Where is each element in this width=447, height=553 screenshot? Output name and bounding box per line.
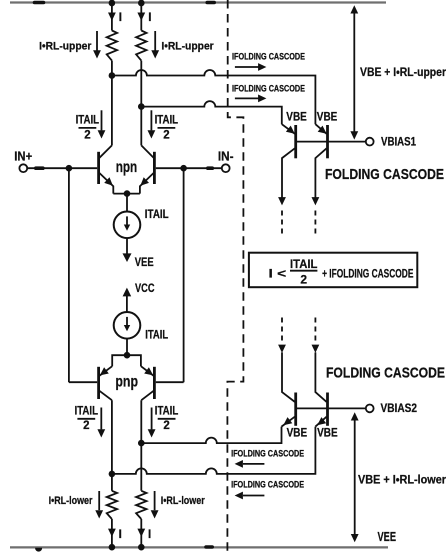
transistor Q2 emitter diagonal with arrow	[315, 124, 326, 134]
node: wire D junction	[109, 471, 116, 478]
dashed stub Q2 collector	[314, 211, 316, 234]
svg-text:ITAIL: ITAIL	[145, 209, 169, 221]
transistor Q1 collector	[282, 148, 295, 197]
current arrow I (upper right)	[137, 13, 145, 21]
transistor Q4 lower cascode base bar	[326, 393, 329, 426]
transistor Q3 collector	[282, 352, 295, 402]
transistor Q4 emitter diagonal with arrow	[315, 417, 326, 427]
svg-text:2: 2	[83, 420, 89, 432]
op... transistor Q1 upper cascode base bar	[294, 125, 297, 158]
resistor RL-upper (right)	[136, 31, 146, 61]
arrow to VEE (mid)	[123, 253, 132, 262]
resistor RL-upper (left)	[107, 31, 117, 61]
svg-text:VBE + I•RL-lower: VBE + I•RL-lower	[358, 472, 446, 486]
transistor Q1 emitter diagonal with arrow	[282, 124, 295, 134]
wire: left lower branch	[111, 400, 113, 491]
svg-text:IFOLDING CASCODE: IFOLDING CASCODE	[232, 52, 305, 62]
wire: right lower branch	[140, 400, 142, 491]
terminal VBIAS1	[366, 138, 374, 146]
current arrow I*RL-upper (left)	[96, 31, 98, 52]
node: IN- / right stem junction	[180, 165, 187, 172]
current source ITAIL (lower)	[114, 312, 141, 339]
svg-text:VBIAS1: VBIAS1	[381, 136, 417, 148]
svg-text:IFOLDING CASCODE: IFOLDING CASCODE	[231, 449, 304, 459]
current arrow I*RL-lower (right)	[154, 491, 156, 510]
current arrow I (lower left)	[108, 529, 116, 537]
transistor npn-left collector diagonal	[99, 145, 112, 157]
transistor pnp-left collector diagonal	[99, 391, 112, 400]
tick mark on bottom rail	[36, 548, 42, 551]
transistor Q2 upper cascode base bar	[326, 125, 329, 158]
wire: source to VEE arrow	[126, 238, 128, 253]
svg-text:pnp: pnp	[115, 374, 138, 391]
wire: source to pnp tail	[126, 339, 128, 356]
node: npn tail	[124, 190, 131, 197]
fraction bar (lower left)	[77, 418, 95, 420]
terminal VBIAS2	[366, 405, 374, 413]
wire: left stem down to pnp-left base	[68, 168, 70, 382]
svg-text:IFOLDING CASCODE: IFOLDING CASCODE	[231, 480, 304, 490]
current arrow IFOLDING CASCODE (lower 1)	[243, 463, 264, 465]
current arrow ITAIL/2 (upper left)	[101, 110, 103, 130]
svg-text:I•RL-lower: I•RL-lower	[161, 495, 205, 507]
svg-text:I <: I <	[269, 266, 287, 280]
fraction bar (upper right)	[158, 127, 176, 129]
svg-text:npn: npn	[116, 159, 138, 176]
transistor pnp-left emitter with arrow	[100, 366, 113, 375]
svg-text:ITAIL: ITAIL	[145, 330, 168, 342]
node: pnp tail	[124, 352, 131, 359]
node: left load / wire A junction	[109, 72, 116, 79]
wire: IN+ to npn-left base	[27, 167, 97, 169]
svg-text:I: I	[148, 12, 151, 24]
wire A: left load to upper cascode Q2 emitter	[112, 70, 316, 124]
VCC supply rail (top)	[10, 1, 386, 3]
wire D: left lower branch to lower cascode Q4 emitter	[112, 427, 316, 474]
svg-text:2: 2	[163, 420, 169, 432]
svg-text:I: I	[148, 529, 151, 541]
wire: RL-lower left to rail	[111, 519, 113, 548]
svg-text:VBIAS2: VBIAS2	[381, 403, 418, 415]
svg-text:FOLDING CASCODE: FOLDING CASCODE	[325, 166, 444, 183]
current arrow I (lower right)	[137, 529, 145, 537]
transistor Q4 collector	[315, 352, 326, 402]
wire: tail to pnp-right emitter	[127, 355, 141, 366]
transistor npn-right base bar	[153, 152, 156, 184]
dashed stub Q1 collector	[281, 211, 283, 234]
transistor pnp-right base bar	[153, 367, 156, 399]
dashed stub Q4 collector	[314, 318, 316, 341]
transistor Q3 lower cascode base bar	[294, 393, 297, 426]
arrow to VCC	[123, 288, 132, 297]
svg-text:ITAIL: ITAIL	[290, 257, 317, 271]
svg-text:FOLDING CASCODE: FOLDING CASCODE	[326, 365, 445, 382]
wire: npn emitters to tail node	[113, 193, 140, 195]
transistor npn-right collector diagonal	[141, 145, 153, 157]
node: wire C junction	[138, 440, 145, 447]
resistor RL-lower (left)	[107, 491, 117, 519]
transistor npn-left emitter with arrow	[99, 173, 113, 194]
arrow into Q4 collector	[312, 345, 320, 353]
svg-text:I: I	[119, 529, 122, 541]
node: right load / wire B junction	[138, 103, 145, 110]
transistor pnp-right emitter with arrow	[141, 366, 154, 375]
measure arrow VBE + I*RL-upper	[353, 12, 355, 133]
svg-text:VBE: VBE	[317, 112, 338, 124]
arrow out of Q1 collector	[278, 197, 286, 205]
svg-text:VCC: VCC	[135, 283, 155, 295]
node: R2 top junction	[138, 0, 145, 6]
wire: R1 bottom down to Q-npn-left collector	[111, 61, 113, 146]
current arrow I*RL-upper (right)	[154, 31, 156, 52]
svg-text:I: I	[119, 12, 122, 24]
wire: R2 branch from rail	[140, 3, 142, 31]
svg-text:VBE: VBE	[286, 112, 307, 124]
svg-text:ITAIL: ITAIL	[75, 405, 99, 417]
wire: R2 bottom down to Q-npn-right collector	[140, 61, 142, 146]
VEE supply rail (bottom)	[10, 546, 388, 548]
node: bottom rail right junction	[138, 544, 145, 551]
arrow into Q3 collector	[278, 345, 286, 353]
svg-text:I•RL-lower: I•RL-lower	[49, 495, 93, 507]
svg-text:I•RL-upper: I•RL-upper	[161, 41, 214, 53]
wire: pnp-right base to right stem	[156, 381, 184, 383]
wire: R1 branch from rail	[111, 3, 113, 31]
svg-text:ITAIL: ITAIL	[155, 115, 179, 127]
measure arrow VBE + I*RL-lower	[354, 419, 356, 535]
wire: tail to pnp-left emitter	[112, 355, 127, 366]
wire: pnp-left base to left stem	[69, 381, 97, 383]
transistor Q3 emitter diagonal with arrow	[282, 417, 295, 427]
tick mark on IN- wire	[208, 166, 213, 170]
tick mark on top rail (left)	[35, 1, 44, 5]
transistor pnp-right collector diagonal	[141, 391, 153, 400]
wire B: right load to upper cascode Q1 emitter	[141, 101, 281, 124]
node: R1 top junction	[109, 0, 116, 6]
svg-text:ITAIL: ITAIL	[155, 405, 179, 417]
svg-text:2: 2	[300, 272, 307, 286]
wire: cascode bases to VBIAS1	[296, 141, 366, 143]
current arrow IFOLDING CASCODE (upper 2)	[235, 97, 259, 99]
constraint box	[249, 253, 417, 288]
terminal IN+	[19, 164, 27, 172]
tick mark on bottom rail (mid)	[206, 545, 212, 549]
wire: lower cascode bases to VBIAS2	[296, 407, 366, 409]
tick mark on top rail (mid)	[207, 1, 214, 5]
svg-text:IN-: IN-	[218, 150, 234, 164]
wire: tail node to current source	[126, 194, 128, 212]
svg-text:I•RL-upper: I•RL-upper	[39, 41, 92, 53]
transistor Q2 collector	[315, 148, 326, 197]
dashed stub Q3 collector	[281, 318, 283, 341]
dashed region divider	[227, 0, 243, 551]
svg-text:+ IFOLDING CASCODE: + IFOLDING CASCODE	[322, 266, 413, 280]
current arrow I (upper left)	[108, 13, 116, 21]
current arrow ITAIL/2 (lower right)	[151, 408, 153, 430]
svg-text:2: 2	[84, 129, 90, 141]
fraction bar (box)	[290, 270, 317, 272]
current arrow I*RL-lower (left)	[98, 491, 100, 510]
svg-text:ITAIL: ITAIL	[76, 115, 100, 127]
current arrow IFOLDING CASCODE (lower 2)	[243, 495, 264, 497]
current source ITAIL (upper)	[114, 212, 141, 239]
fraction bar (upper left)	[79, 127, 97, 129]
transistor pnp-left base bar	[97, 367, 100, 399]
arrow out of Q2 collector	[312, 197, 320, 205]
svg-text:VEE: VEE	[378, 530, 397, 544]
svg-text:VBE + I•RL-upper: VBE + I•RL-upper	[360, 65, 446, 79]
terminal IN-	[222, 164, 230, 172]
wire: npn-right base to IN-	[156, 167, 222, 169]
node: bottom rail left junction	[109, 544, 116, 551]
tick mark on IN+ wire	[36, 166, 43, 170]
fraction bar (lower right)	[158, 418, 176, 420]
svg-text:IN+: IN+	[14, 150, 32, 164]
current arrow ITAIL/2 (lower left)	[100, 408, 102, 430]
transistor npn-right emitter with arrow	[140, 173, 154, 194]
svg-text:2: 2	[163, 129, 169, 141]
svg-text:IFOLDING CASCODE: IFOLDING CASCODE	[232, 83, 305, 93]
svg-text:VEE: VEE	[135, 257, 154, 269]
svg-text:VBE: VBE	[317, 427, 338, 439]
wire: right stem down to pnp-right base	[183, 168, 185, 382]
current arrow ITAIL/2 (upper right)	[150, 110, 152, 130]
resistor RL-lower (right)	[136, 491, 146, 519]
transistor npn-left base bar	[97, 152, 100, 184]
node: IN+ / left stem junction	[66, 165, 73, 172]
wire C: right lower branch to lower cascode Q3 emitter	[141, 427, 281, 444]
svg-text:VBE: VBE	[287, 427, 308, 439]
current arrow IFOLDING CASCODE (upper 1)	[235, 66, 259, 68]
wire: RL-lower right to rail	[140, 519, 142, 548]
